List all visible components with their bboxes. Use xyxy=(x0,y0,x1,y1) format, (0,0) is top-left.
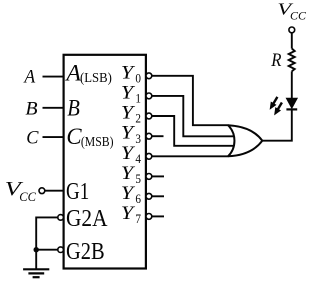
pin label Y4 xyxy=(121,143,142,166)
pin label C (MSB) xyxy=(66,124,113,150)
pin bubble Y4 xyxy=(146,153,152,159)
pin bubble Y2 xyxy=(146,113,152,119)
svg-text:(LSB): (LSB) xyxy=(80,70,112,85)
svg-text:(MSB): (MSB) xyxy=(81,134,114,149)
svg-text:G2B: G2B xyxy=(66,238,105,265)
wire Y2 to gate input 3 xyxy=(152,116,234,146)
wire Y4 to gate input 4 xyxy=(152,155,229,157)
svg-text:4: 4 xyxy=(135,151,141,166)
svg-text:2: 2 xyxy=(135,111,141,126)
wire input B xyxy=(43,107,65,109)
resistor R xyxy=(289,49,295,72)
svg-text:B: B xyxy=(25,98,38,119)
wire G2B to junction xyxy=(36,249,58,251)
svg-text:CC: CC xyxy=(290,9,307,23)
svg-text:C: C xyxy=(66,124,82,150)
svg-text:3: 3 xyxy=(135,131,141,146)
svg-text:G2A: G2A xyxy=(66,205,108,232)
wire input C xyxy=(43,136,65,138)
wire stub Y3 xyxy=(152,135,164,137)
pin label Y6 xyxy=(121,183,142,206)
wire G2A to ground rail xyxy=(36,217,58,249)
svg-text:B: B xyxy=(67,95,80,121)
ground symbol xyxy=(23,269,49,277)
svg-text:G1: G1 xyxy=(66,178,89,205)
decoder chip U1 body xyxy=(64,55,146,269)
pin bubble Y1 xyxy=(146,93,152,99)
wire stub Y5 xyxy=(152,175,164,177)
wire stub Y7 xyxy=(152,215,164,217)
pin bubble G2B xyxy=(58,247,64,253)
svg-text:1: 1 xyxy=(135,91,141,106)
pin label A (LSB) xyxy=(64,60,111,86)
wire VCC to G1 xyxy=(45,190,65,192)
wire input A xyxy=(43,76,65,78)
wire stub Y6 xyxy=(152,195,164,197)
pin bubble Y0 xyxy=(146,73,152,79)
LED D1 xyxy=(286,98,297,109)
svg-text:7: 7 xyxy=(135,211,141,226)
pin bubble Y5 xyxy=(146,174,152,180)
pin label Y3 xyxy=(121,123,141,146)
svg-text:6: 6 xyxy=(135,191,141,206)
power VCC label (left) xyxy=(5,178,36,204)
wire gate output to LED xyxy=(262,109,292,141)
svg-text:R: R xyxy=(270,50,281,71)
svg-text:CC: CC xyxy=(19,189,36,204)
terminal circle at VCC G1 xyxy=(39,188,45,194)
wire LED to resistor xyxy=(291,71,293,98)
wire resistor to VCC terminal xyxy=(291,33,293,49)
pin bubble Y7 xyxy=(146,214,152,220)
svg-text:5: 5 xyxy=(135,171,141,186)
svg-text:C: C xyxy=(26,127,39,148)
wire Y1 to gate input 2 xyxy=(152,96,234,136)
pin bubble G2A xyxy=(58,215,64,221)
pin label Y1 xyxy=(121,82,141,105)
pin label Y2 xyxy=(121,103,141,126)
wire Y0 to gate input 1 xyxy=(152,76,229,125)
pin label Y0 xyxy=(121,62,141,85)
terminal circle VCC (top) xyxy=(289,27,295,33)
LED emission arrows xyxy=(270,97,282,114)
pin bubble Y6 xyxy=(146,193,152,199)
power VCC label (top right) xyxy=(277,0,306,23)
wire junction to ground xyxy=(35,250,37,269)
svg-text:0: 0 xyxy=(135,70,141,85)
pin bubble Y3 xyxy=(146,133,152,139)
pin label Y7 xyxy=(121,203,142,226)
or-gate U2 xyxy=(228,125,262,156)
junction dot xyxy=(34,247,39,252)
svg-text:A: A xyxy=(23,66,36,87)
pin label Y5 xyxy=(121,163,141,186)
